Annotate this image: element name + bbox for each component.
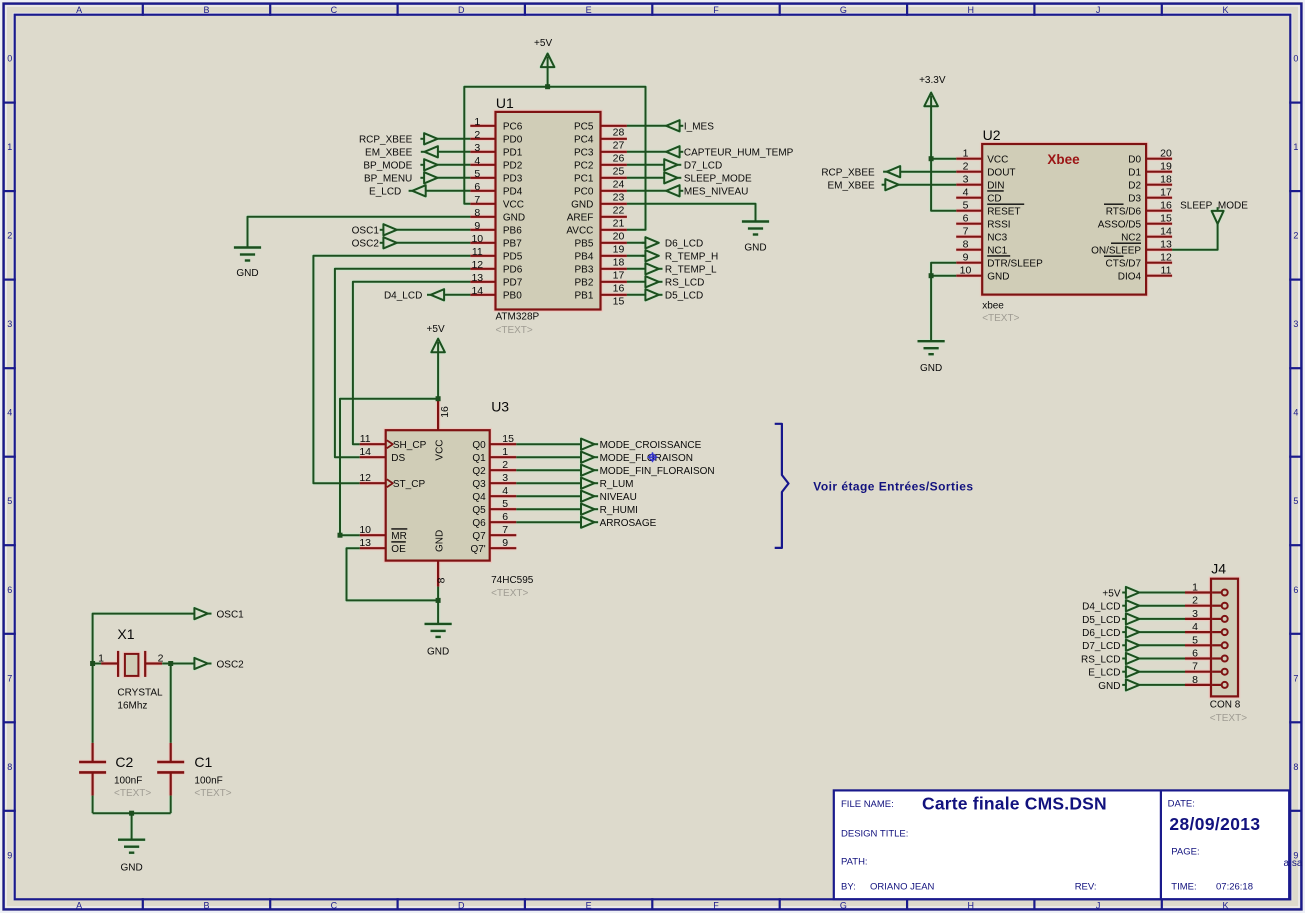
wire C1 to ground rail [170, 796, 172, 814]
svg-text:9: 9 [474, 220, 480, 232]
svg-text:GND: GND [236, 268, 258, 279]
svg-text:3: 3 [7, 319, 12, 329]
svg-text:4: 4 [502, 485, 508, 497]
svg-text:DESIGN TITLE:: DESIGN TITLE: [841, 829, 908, 840]
svg-text:DOUT: DOUT [987, 168, 1015, 179]
power +3.3V [930, 96, 932, 106]
terminal R_HUMI [581, 504, 594, 515]
svg-text:OSC2: OSC2 [217, 659, 245, 670]
svg-text:B: B [203, 5, 209, 15]
IC U1 body [496, 112, 601, 310]
svg-text:16: 16 [613, 283, 625, 295]
svg-text:PD2: PD2 [503, 161, 523, 172]
annotation brace [775, 424, 789, 548]
wire D5_LCD to J4 [1139, 618, 1185, 620]
svg-text:16: 16 [439, 406, 451, 418]
svg-text:23: 23 [613, 192, 625, 204]
svg-text:GND: GND [987, 272, 1009, 283]
svg-text:RTS/D6: RTS/D6 [1106, 207, 1142, 218]
wire GND pin 10 [931, 275, 956, 277]
svg-text:D6_LCD: D6_LCD [1082, 628, 1120, 639]
svg-text:6: 6 [7, 585, 12, 595]
svg-text:TIME:: TIME: [1171, 882, 1196, 893]
svg-text:11: 11 [1161, 265, 1172, 277]
svg-text:F: F [713, 901, 719, 911]
svg-text:BP_MENU: BP_MENU [364, 174, 412, 185]
wire MES_NIVEAU [627, 190, 666, 192]
J4 pin circles [1222, 590, 1228, 596]
svg-text:H: H [968, 5, 975, 15]
U3 clock chevron SH_CP [387, 440, 393, 448]
svg-text:R_LUM: R_LUM [600, 479, 634, 490]
svg-text:19: 19 [613, 244, 625, 256]
svg-text:Q6: Q6 [472, 518, 486, 529]
svg-text:RESET: RESET [987, 207, 1020, 218]
svg-text:E: E [586, 901, 592, 911]
svg-text:ST_CP: ST_CP [393, 479, 426, 490]
svg-text:Q2: Q2 [472, 466, 486, 477]
svg-text:10: 10 [359, 524, 371, 536]
svg-text:CTS/D7: CTS/D7 [1106, 259, 1142, 270]
wire EM_XBEE to pin 3 [438, 151, 470, 153]
svg-text:6: 6 [1192, 648, 1198, 660]
svg-text:3: 3 [1293, 319, 1298, 329]
svg-text:28/09/2013: 28/09/2013 [1169, 814, 1260, 834]
svg-text:7: 7 [502, 524, 508, 536]
svg-text:Q7': Q7' [470, 544, 485, 555]
U1 left pin stubs [470, 125, 495, 127]
junction [436, 598, 441, 603]
svg-text:5: 5 [502, 498, 508, 510]
svg-text:PC2: PC2 [574, 161, 594, 172]
svg-text:15: 15 [613, 296, 625, 308]
ground (X1) [118, 839, 145, 841]
svg-text:NC2: NC2 [1121, 233, 1141, 244]
wire RCP_XBEE to DOUT [901, 171, 956, 173]
svg-text:14: 14 [1160, 226, 1172, 238]
wire MODE_CROISSANCE [516, 443, 581, 445]
svg-text:8: 8 [435, 577, 447, 583]
wire RCP_XBEE to pin 2 [438, 138, 471, 140]
svg-text:DTR/SLEEP: DTR/SLEEP [987, 259, 1043, 270]
svg-text:3: 3 [502, 472, 508, 484]
svg-text:RS_LCD: RS_LCD [1081, 654, 1120, 665]
svg-text:1: 1 [502, 446, 508, 458]
svg-text:16: 16 [1160, 200, 1172, 212]
wire R_HUMI [516, 508, 581, 510]
svg-text:18: 18 [1160, 174, 1172, 186]
svg-text:18: 18 [613, 257, 625, 269]
svg-text:1: 1 [1192, 582, 1198, 594]
svg-text:R_HUMI: R_HUMI [600, 505, 638, 516]
junction [436, 396, 441, 401]
U1 right pin stubs [601, 125, 627, 127]
wire GND pin 8 [248, 217, 471, 248]
svg-text:D: D [458, 5, 465, 15]
wire PD7 to SH_CP [353, 282, 470, 444]
svg-text:10: 10 [960, 265, 972, 277]
svg-text:VCC: VCC [434, 439, 445, 460]
svg-text:3: 3 [963, 174, 969, 186]
svg-text:CD: CD [987, 194, 1001, 205]
wire OSC2 net [162, 663, 194, 665]
svg-text:MES_NIVEAU: MES_NIVEAU [684, 187, 748, 198]
svg-text:20: 20 [613, 231, 625, 243]
svg-text:AREF: AREF [567, 213, 594, 224]
svg-text:Voir étage Entrées/Sorties: Voir étage Entrées/Sorties [813, 480, 973, 494]
svg-text:7: 7 [1293, 673, 1298, 683]
svg-text:PB4: PB4 [574, 252, 593, 263]
svg-text:11: 11 [472, 246, 483, 258]
svg-text:PB5: PB5 [574, 239, 593, 250]
svg-text:8: 8 [7, 762, 12, 772]
wire PD6 to DS [335, 269, 470, 457]
svg-text:Carte finale CMS.DSN: Carte finale CMS.DSN [922, 794, 1107, 814]
svg-text:OSC2: OSC2 [352, 239, 380, 250]
svg-text:RCP_XBEE: RCP_XBEE [359, 135, 413, 146]
svg-text:U1: U1 [496, 95, 514, 111]
wire +3.3V to RESET pin 5 [931, 106, 956, 211]
svg-text:DS: DS [391, 453, 405, 464]
U3 bottom pin stub (8) [437, 561, 439, 587]
svg-text:28: 28 [613, 127, 625, 139]
svg-text:<TEXT>: <TEXT> [194, 788, 231, 799]
junction [338, 533, 343, 538]
svg-text:0: 0 [1293, 54, 1298, 64]
terminal MODE_FLORAISON [581, 452, 594, 463]
svg-text:14: 14 [471, 285, 483, 297]
svg-text:R_TEMP_L: R_TEMP_L [665, 265, 717, 276]
ground (right of U1) [742, 220, 769, 222]
svg-text:2: 2 [1293, 231, 1298, 241]
svg-text:7: 7 [963, 226, 969, 238]
svg-text:Xbee: Xbee [1047, 152, 1080, 167]
svg-text:13: 13 [471, 272, 483, 284]
wire SLEEP_MODE [627, 177, 664, 179]
svg-text:Q4: Q4 [472, 492, 486, 503]
svg-text:E_LCD: E_LCD [1088, 668, 1120, 679]
svg-text:A: A [76, 5, 82, 15]
connector J4 body [1211, 579, 1238, 697]
wire D4_LCD to J4 [1139, 605, 1185, 607]
svg-text:2: 2 [474, 129, 480, 141]
wire MODE_FIN_FLORAISON [516, 469, 581, 471]
svg-text:<TEXT>: <TEXT> [114, 788, 151, 799]
wire down to C1 [170, 664, 172, 743]
U3 top pin stub (16) [437, 399, 439, 431]
svg-text:5: 5 [474, 168, 480, 180]
svg-text:20: 20 [1160, 148, 1172, 160]
wire GND pin 22 [627, 204, 756, 222]
svg-text:PATH:: PATH: [841, 857, 868, 868]
svg-text:OSC1: OSC1 [352, 226, 380, 237]
svg-text:13: 13 [1160, 239, 1172, 251]
svg-text:17: 17 [613, 270, 625, 282]
svg-text:ON/SLEEP: ON/SLEEP [1091, 246, 1141, 257]
svg-text:R_TEMP_H: R_TEMP_H [665, 252, 718, 263]
svg-text:D4_LCD: D4_LCD [384, 291, 422, 302]
svg-text:GND: GND [920, 363, 942, 374]
svg-text:PD4: PD4 [503, 187, 523, 198]
U2 right pin stubs [1146, 158, 1172, 160]
svg-text:AVCC: AVCC [566, 226, 593, 237]
svg-text:12: 12 [471, 259, 483, 271]
svg-text:5: 5 [1192, 634, 1198, 646]
svg-text:DIN: DIN [987, 181, 1004, 192]
svg-text:19: 19 [1160, 161, 1172, 173]
junction [545, 84, 550, 89]
wire OSC2 to pin 10 [397, 242, 471, 244]
svg-text:PD1: PD1 [503, 148, 523, 159]
svg-text:K: K [1222, 901, 1228, 911]
svg-text:PC5: PC5 [574, 122, 594, 133]
svg-text:2: 2 [963, 161, 969, 173]
svg-text:G: G [840, 901, 847, 911]
svg-text:100nF: 100nF [194, 775, 222, 786]
wire VCC pin 1 [931, 158, 956, 160]
svg-text:NC3: NC3 [987, 233, 1007, 244]
svg-text:+5V: +5V [427, 324, 445, 335]
svg-text:PC6: PC6 [503, 122, 523, 133]
U2 left pin stubs [956, 158, 982, 160]
svg-text:10: 10 [471, 233, 483, 245]
svg-text:1: 1 [7, 142, 12, 152]
wire down to C2 [92, 664, 94, 743]
svg-text:DATE:: DATE: [1168, 798, 1195, 809]
svg-text:C1: C1 [194, 754, 212, 770]
wire +5V to J4 [1139, 592, 1185, 594]
wire E_LCD to J4 [1139, 671, 1185, 673]
svg-text:PC4: PC4 [574, 135, 594, 146]
ground (left of U1) [234, 246, 261, 248]
svg-text:Q7: Q7 [472, 531, 486, 542]
IC U2 body [982, 144, 1146, 295]
svg-text:D1: D1 [1128, 168, 1141, 179]
wire D6_LCD to J4 [1139, 631, 1185, 633]
svg-text:Q0: Q0 [472, 440, 486, 451]
capacitor C1 [170, 743, 172, 762]
svg-text:MODE_FLORAISON: MODE_FLORAISON [600, 453, 693, 464]
svg-text:13: 13 [359, 537, 371, 549]
svg-text:BY:: BY: [841, 882, 856, 893]
svg-text:PD3: PD3 [503, 174, 523, 185]
svg-text:6: 6 [502, 511, 508, 523]
svg-text:ORIANO JEAN: ORIANO JEAN [870, 882, 935, 893]
svg-text:4: 4 [1192, 621, 1198, 633]
svg-text:ATM328P: ATM328P [496, 312, 540, 323]
svg-text:100nF: 100nF [114, 775, 142, 786]
wire PD5 to ST_CP [313, 256, 470, 483]
svg-text:2: 2 [502, 459, 508, 471]
power +5V (U3) [437, 342, 439, 399]
svg-text:PB0: PB0 [503, 291, 522, 302]
svg-text:15: 15 [1160, 213, 1172, 225]
svg-text:7: 7 [7, 673, 12, 683]
svg-text:PC1: PC1 [574, 174, 594, 185]
junction [168, 661, 173, 666]
svg-text:D6_LCD: D6_LCD [665, 239, 703, 250]
svg-text:MODE_CROISSANCE: MODE_CROISSANCE [600, 440, 702, 451]
wire CAPTEUR_HUM_TEMP [627, 151, 666, 153]
junction [929, 156, 934, 161]
svg-text:I_MES: I_MES [684, 122, 714, 133]
svg-text:11: 11 [360, 433, 371, 445]
svg-text:PAGE:: PAGE: [1171, 847, 1199, 858]
wire to ground symbol [131, 813, 133, 840]
svg-text:D5_LCD: D5_LCD [665, 291, 703, 302]
svg-text:1: 1 [474, 116, 480, 128]
junction [90, 661, 95, 666]
svg-text:16Mhz: 16Mhz [117, 700, 147, 711]
svg-text:U2: U2 [983, 127, 1001, 143]
power +5V (U1) [547, 57, 549, 67]
wire EM_XBEE to DIN [899, 184, 957, 186]
terminal MODE_FIN_FLORAISON [581, 465, 594, 476]
svg-text:0: 0 [7, 54, 12, 64]
svg-text:ARROSAGE: ARROSAGE [600, 518, 657, 529]
svg-text:<TEXT>: <TEXT> [982, 313, 1019, 324]
svg-text:MR: MR [391, 531, 407, 542]
J4 pin inner segments [1212, 591, 1221, 593]
svg-text:F: F [713, 5, 719, 15]
wire BP_MENU to pin 5 [438, 177, 471, 179]
terminal R_LUM [581, 478, 594, 489]
svg-text:GND: GND [427, 646, 449, 657]
svg-text:4: 4 [963, 187, 969, 199]
svg-text:CRYSTAL: CRYSTAL [117, 687, 163, 698]
svg-text:12: 12 [1160, 252, 1172, 264]
svg-text:3: 3 [474, 142, 480, 154]
ground (U2) [918, 340, 945, 342]
svg-text:1: 1 [963, 148, 969, 160]
U3 right pin stubs [490, 443, 517, 445]
svg-text:<TEXT>: <TEXT> [1210, 713, 1247, 724]
svg-text:2: 2 [1192, 595, 1198, 607]
svg-text:NIVEAU: NIVEAU [600, 492, 637, 503]
svg-text:15: 15 [502, 433, 514, 445]
wire GND to J4 [1139, 684, 1185, 686]
svg-text:ASSO/D5: ASSO/D5 [1098, 220, 1142, 231]
svg-text:xbee: xbee [982, 301, 1004, 312]
svg-text:D7_LCD: D7_LCD [1082, 641, 1120, 652]
svg-text:9: 9 [7, 850, 12, 860]
wire GND pin 8 [437, 587, 439, 624]
wire RS_LCD [627, 281, 646, 283]
wire BP_MODE to pin 4 [438, 164, 471, 166]
wire C2 to ground rail [92, 796, 94, 814]
svg-text:9: 9 [963, 252, 969, 264]
svg-text:12: 12 [359, 472, 371, 484]
svg-text:74HC595: 74HC595 [491, 575, 534, 586]
wire OSC1 to pin 9 [397, 229, 471, 231]
svg-text:27: 27 [613, 140, 625, 152]
svg-text:CAPTEUR_HUM_TEMP: CAPTEUR_HUM_TEMP [684, 148, 794, 159]
svg-text:PD5: PD5 [503, 252, 523, 263]
wire D7_LCD [627, 164, 664, 166]
svg-text:C2: C2 [115, 754, 133, 770]
svg-text:PB1: PB1 [574, 291, 593, 302]
svg-text:A: A [76, 901, 82, 911]
svg-text:RSSI: RSSI [987, 220, 1010, 231]
wire I_MES [627, 125, 666, 127]
svg-text:24: 24 [613, 179, 625, 191]
svg-text:22: 22 [613, 205, 625, 217]
svg-text:4: 4 [1293, 408, 1298, 418]
svg-text:+5V: +5V [1102, 588, 1120, 599]
svg-text:a sa: a sa [1284, 858, 1303, 869]
svg-text:Q3: Q3 [472, 479, 486, 490]
svg-text:PB6: PB6 [503, 226, 522, 237]
wire ground rail [93, 812, 171, 814]
svg-text:GND: GND [120, 862, 142, 873]
svg-text:D0: D0 [1128, 155, 1141, 166]
svg-text:D3: D3 [1128, 194, 1141, 205]
svg-text:6: 6 [474, 181, 480, 193]
svg-text:3: 3 [1192, 608, 1198, 620]
svg-text:07:26:18: 07:26:18 [1216, 882, 1253, 893]
svg-text:J: J [1096, 901, 1101, 911]
svg-text:C: C [331, 5, 338, 15]
wire OE to GND [347, 548, 439, 600]
wire +5V rail to VCC and AVCC [464, 87, 645, 230]
wire DTR/SLEEP to GND [931, 263, 956, 342]
svg-text:2: 2 [7, 231, 12, 241]
wire D5_LCD [627, 294, 646, 296]
svg-text:U3: U3 [491, 399, 509, 415]
svg-text:6: 6 [1293, 585, 1298, 595]
svg-text:G: G [840, 5, 847, 15]
wire D6_LCD [627, 242, 646, 244]
wire ON/SLEEP to SLEEP_MODE [1172, 224, 1218, 250]
ground (U3) [425, 623, 452, 625]
svg-text:Q5: Q5 [472, 505, 486, 516]
svg-text:C: C [331, 901, 338, 911]
svg-text:<TEXT>: <TEXT> [491, 588, 528, 599]
X1 pin stubs [101, 662, 118, 664]
svg-text:7: 7 [1192, 661, 1198, 673]
svg-text:B: B [203, 901, 209, 911]
svg-text:8: 8 [1293, 762, 1298, 772]
svg-text:+3.3V: +3.3V [919, 75, 946, 86]
svg-text:OSC1: OSC1 [217, 610, 245, 621]
junction [929, 273, 934, 278]
svg-text:BP_MODE: BP_MODE [363, 161, 412, 172]
U3 clock chevron ST_CP [387, 479, 393, 487]
title block [834, 790, 1289, 899]
svg-text:PC3: PC3 [574, 148, 594, 159]
svg-text:5: 5 [7, 496, 12, 506]
svg-text:SH_CP: SH_CP [393, 440, 427, 451]
svg-text:25: 25 [613, 166, 625, 178]
svg-text:H: H [968, 901, 975, 911]
J4 pin stubs [1185, 591, 1212, 593]
svg-text:GND: GND [503, 213, 525, 224]
svg-text:MODE_FIN_FLORAISON: MODE_FIN_FLORAISON [600, 466, 715, 477]
svg-text:+5V: +5V [534, 38, 552, 49]
svg-text:PB7: PB7 [503, 239, 522, 250]
svg-text:<TEXT>: <TEXT> [496, 325, 533, 336]
svg-text:D: D [458, 901, 465, 911]
svg-text:K: K [1222, 5, 1228, 15]
IC U3 body [386, 430, 490, 560]
svg-text:X1: X1 [117, 626, 134, 642]
svg-text:PB3: PB3 [574, 265, 593, 276]
svg-text:SLEEP_MODE: SLEEP_MODE [684, 174, 752, 185]
svg-text:D5_LCD: D5_LCD [1082, 615, 1120, 626]
svg-text:21: 21 [613, 218, 625, 230]
svg-text:PB2: PB2 [574, 278, 593, 289]
svg-text:J4: J4 [1211, 561, 1226, 577]
